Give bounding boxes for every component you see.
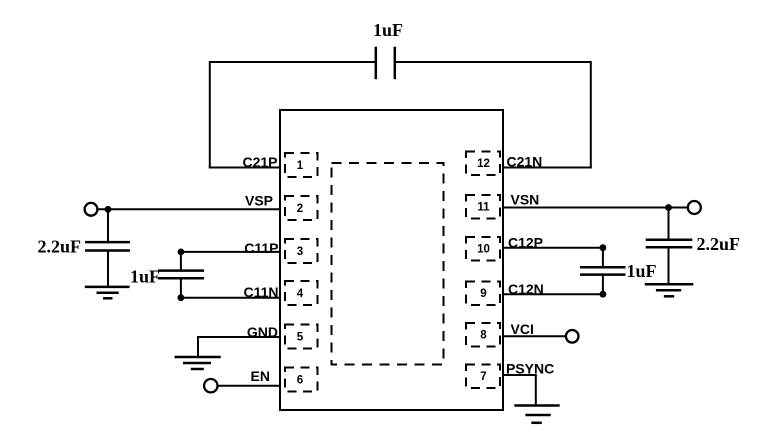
wire right vertical drop to C21N (590, 61, 592, 168)
wire left vertical drop to C21P (209, 61, 211, 168)
terminal circle VCI (566, 330, 579, 343)
ground (left below C2) (85, 287, 130, 298)
wire PSYNC vertical drop (535, 374, 537, 406)
svg-text:8: 8 (480, 330, 487, 342)
pin 6 pad (285, 368, 318, 392)
svg-text:GND: GND (247, 324, 278, 340)
svg-text:10: 10 (477, 244, 490, 256)
pin 8 pad (466, 323, 500, 347)
ground (PSYNC) (514, 406, 559, 423)
svg-text:C21P: C21P (242, 154, 277, 170)
pin 2 pad (285, 196, 318, 220)
wire EN pin 6 (218, 385, 281, 387)
pin 11 pad (466, 195, 500, 219)
pin 5 pad (285, 325, 318, 349)
node junction C11P/C3 (178, 249, 185, 256)
svg-text:VSP: VSP (245, 193, 273, 209)
pin 1 pad (285, 153, 318, 177)
node junction VSP/C2 (105, 206, 112, 213)
wire C12N pin 9 (502, 293, 603, 295)
inner dashed outline (332, 163, 444, 365)
pin 4 pad (285, 281, 318, 305)
svg-text:1uF: 1uF (373, 20, 403, 40)
svg-text:3: 3 (297, 246, 303, 258)
node junction C12N/C5 (600, 291, 607, 298)
wire top horizontal right of C1 (396, 61, 591, 63)
wire GND pin 5 (198, 336, 281, 338)
svg-text:C12P: C12P (508, 235, 543, 251)
wire top horizontal left of C1 (210, 61, 375, 63)
svg-text:1uF: 1uF (627, 261, 657, 281)
svg-text:1uF: 1uF (130, 267, 160, 287)
wire C12P pin 10 (502, 247, 603, 249)
svg-text:VCI: VCI (511, 321, 534, 337)
pin 12 pad (466, 152, 500, 176)
wire C21P pin 1 (209, 167, 281, 169)
svg-text:EN: EN (251, 368, 270, 384)
node junction C11N/C3 (178, 294, 185, 301)
terminal circle VSN (688, 201, 701, 214)
wire C11P pin 3 (181, 251, 281, 253)
svg-text:2: 2 (297, 203, 303, 215)
wire GND vertical drop (197, 336, 199, 357)
wire VCI pin 8 (502, 335, 565, 337)
terminal circle VSP (85, 203, 98, 216)
IC U1 body (280, 110, 503, 410)
svg-text:4: 4 (297, 288, 304, 300)
pin 7 pad (466, 365, 500, 389)
wire VSN pin 11 (502, 207, 687, 209)
svg-text:9: 9 (480, 288, 486, 300)
svg-text:PSYNC: PSYNC (506, 361, 554, 377)
svg-text:7: 7 (480, 371, 486, 383)
capacitor C1 1uF (flying cap top) (376, 47, 395, 79)
capacitor C2 2.2uF (left) (85, 209, 130, 286)
svg-text:2.2uF: 2.2uF (37, 237, 81, 257)
wire VSP pin 2 (98, 208, 281, 210)
capacitor C3 1uF (left) (158, 252, 204, 298)
svg-text:C11N: C11N (243, 284, 278, 300)
pin 9 pad (466, 282, 500, 306)
capacitor C4 2.2uF (right) (646, 208, 693, 284)
svg-text:5: 5 (297, 332, 304, 344)
wire C21N pin 12 (502, 167, 592, 169)
svg-text:C21N: C21N (507, 154, 543, 170)
pin 3 pad (285, 239, 318, 263)
node junction VSN/C4 (665, 204, 672, 211)
svg-text:2.2uF: 2.2uF (697, 234, 741, 254)
svg-text:C12N: C12N (508, 281, 544, 297)
wire C11N pin 4 (181, 297, 281, 299)
svg-text:1: 1 (297, 160, 304, 172)
terminal circle EN (204, 379, 217, 392)
svg-text:VSN: VSN (511, 192, 540, 208)
svg-text:12: 12 (477, 158, 490, 170)
svg-text:11: 11 (477, 202, 490, 214)
wire PSYNC pin 7 (502, 374, 536, 376)
svg-text:6: 6 (297, 375, 303, 387)
ground (right below C4) (645, 284, 694, 296)
ground (GND pin) (175, 357, 221, 369)
node junction C12P/C5 (600, 244, 607, 251)
svg-text:C11P: C11P (244, 240, 278, 256)
pin 10 pad (466, 237, 500, 261)
capacitor C5 1uF (right) (580, 248, 626, 295)
